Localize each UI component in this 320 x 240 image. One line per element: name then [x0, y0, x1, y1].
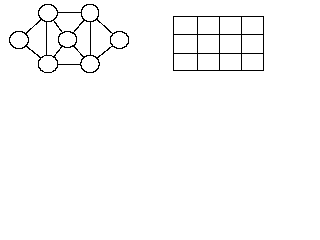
grid vertical left border [173, 16, 174, 71]
wire edge R-BR [97, 45, 113, 59]
wire edge TR-BR [90, 22, 91, 55]
wire edge TL-BL [46, 21, 47, 55]
node C [58, 31, 77, 48]
wire edge L-BL [26, 45, 41, 59]
grid vertical line 2 [219, 16, 220, 71]
grid vertical line 3 [241, 16, 242, 71]
wire edge BL-BR [58, 64, 81, 65]
node L [9, 31, 29, 49]
wire edge C-BR [73, 46, 84, 58]
wire edge TR-R [96, 19, 113, 34]
grid horizontal bottom border [173, 70, 264, 71]
wire edge TL-C [53, 20, 63, 33]
node BR [80, 55, 100, 73]
wire edge C-BL [53, 46, 63, 57]
grid vertical line 1 [197, 16, 198, 71]
grid horizontal line 2 [173, 53, 264, 54]
node TR [81, 4, 99, 22]
grid vertical right border [263, 16, 264, 71]
node BL [38, 55, 58, 73]
grid horizontal top border [173, 16, 264, 17]
grid horizontal line 1 [173, 34, 264, 35]
node R [110, 31, 129, 49]
wire edge L-TL [25, 19, 42, 34]
wire edge TR-C [73, 20, 84, 33]
node TL [38, 4, 58, 22]
wire edge TL-TR [58, 12, 81, 13]
